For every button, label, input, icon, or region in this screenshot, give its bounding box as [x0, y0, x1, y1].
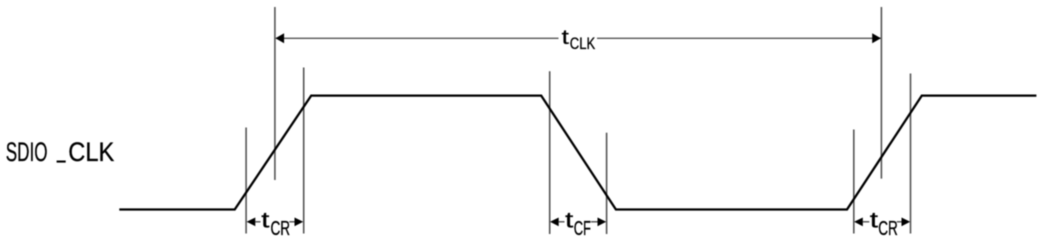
svg-text:CLK: CLK — [570, 35, 596, 53]
svg-text:t: t — [562, 27, 570, 49]
svg-text:CR: CR — [270, 218, 290, 240]
svg-text:CLK: CLK — [68, 136, 114, 167]
svg-text:SDIO: SDIO — [6, 136, 48, 167]
svg-text:CF: CF — [574, 218, 591, 240]
svg-text:CR: CR — [878, 218, 898, 240]
svg-text:t: t — [565, 207, 573, 232]
svg-text:t: t — [870, 207, 878, 232]
svg-text:t: t — [261, 207, 269, 232]
